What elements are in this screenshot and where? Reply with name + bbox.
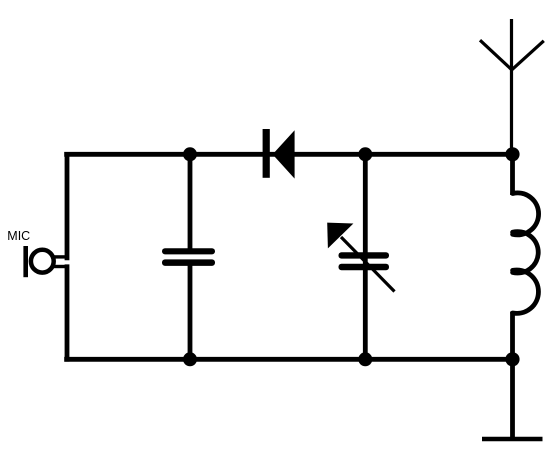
- svg-text:MIC: MIC: [7, 229, 30, 243]
